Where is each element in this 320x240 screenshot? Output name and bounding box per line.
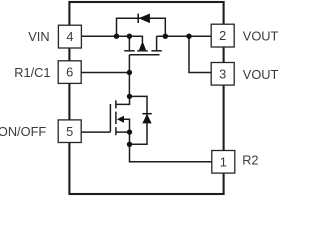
transistor Q2 drain stub (116, 96, 130, 104)
svg-text:R1/C1: R1/C1 (14, 65, 50, 80)
diode D1 cathode bar (137, 14, 139, 23)
node dot: D2 anode junction (127, 142, 132, 147)
node dot: Q1 source stub on rail (127, 34, 132, 39)
transistor Q1 drain stub (156, 36, 158, 51)
transistor Q2 body arrow (points left) (117, 116, 124, 123)
pin 6 box (58, 61, 81, 84)
transistor Q2 gate bar (109, 104, 111, 132)
svg-text:VIN: VIN (28, 29, 49, 44)
wire Q1 gate down to Q2 drain node (128, 55, 130, 97)
transistor Q1 channel segments (124, 50, 134, 52)
pin 3 box (211, 63, 234, 86)
svg-text:3: 3 (219, 66, 226, 81)
wire R1/C1 (pin 6 to gate node) (81, 72, 129, 74)
wire Q1 drain side rail to VOUT node (157, 35, 211, 37)
wire ON/OFF (pin 5 to Q2 gate) (81, 131, 110, 133)
pin 2 box (211, 24, 234, 47)
svg-text:ON/OFF: ON/OFF (0, 124, 46, 139)
diode D2 cathode bar (142, 113, 151, 115)
pin 1 box (212, 151, 235, 174)
transistor Q1 body stub (141, 36, 143, 42)
transistor Q1 source stub (128, 36, 130, 51)
svg-text:1: 1 (220, 154, 227, 169)
transistor Q2 source stub (116, 131, 130, 133)
svg-text:2: 2 (219, 28, 226, 43)
diode D1 arrow (points left) (139, 14, 150, 24)
node dot: Q2 drain node (127, 94, 132, 99)
node dot: D1 right leg on rail (163, 34, 168, 39)
node dot: pin 3 branch on rail (186, 34, 191, 39)
svg-text:4: 4 (66, 29, 73, 44)
transistor Q2 body wire (124, 119, 130, 132)
wire VIN rail (pin 4 to Q1 source side) (81, 35, 143, 37)
wire body-diode loop D2 (130, 96, 148, 144)
svg-text:R2: R2 (242, 152, 258, 167)
diode D2 arrow (points up) (142, 114, 151, 124)
node dot: D1 left leg on rail (114, 34, 119, 39)
svg-text:VOUT: VOUT (243, 29, 279, 44)
svg-text:VOUT: VOUT (243, 67, 279, 82)
IC package outline (69, 2, 223, 194)
wire body-diode loop D1 (117, 18, 166, 36)
svg-text:6: 6 (66, 65, 73, 80)
pin 4 box (58, 25, 81, 48)
svg-text:5: 5 (66, 124, 73, 139)
node dot: Q2 source node (127, 129, 132, 134)
transistor Q1 gate bar (129, 54, 159, 56)
transistor Q2 channel segments (115, 100, 117, 108)
wire Q2 source to pin 1 R2 (130, 132, 212, 162)
pin 5 box (58, 120, 81, 143)
transistor Q1 body arrow (points up) (139, 41, 146, 50)
node dot: R1/C1 junction (127, 70, 132, 75)
wire VOUT branch to pin 3 (189, 36, 211, 72)
